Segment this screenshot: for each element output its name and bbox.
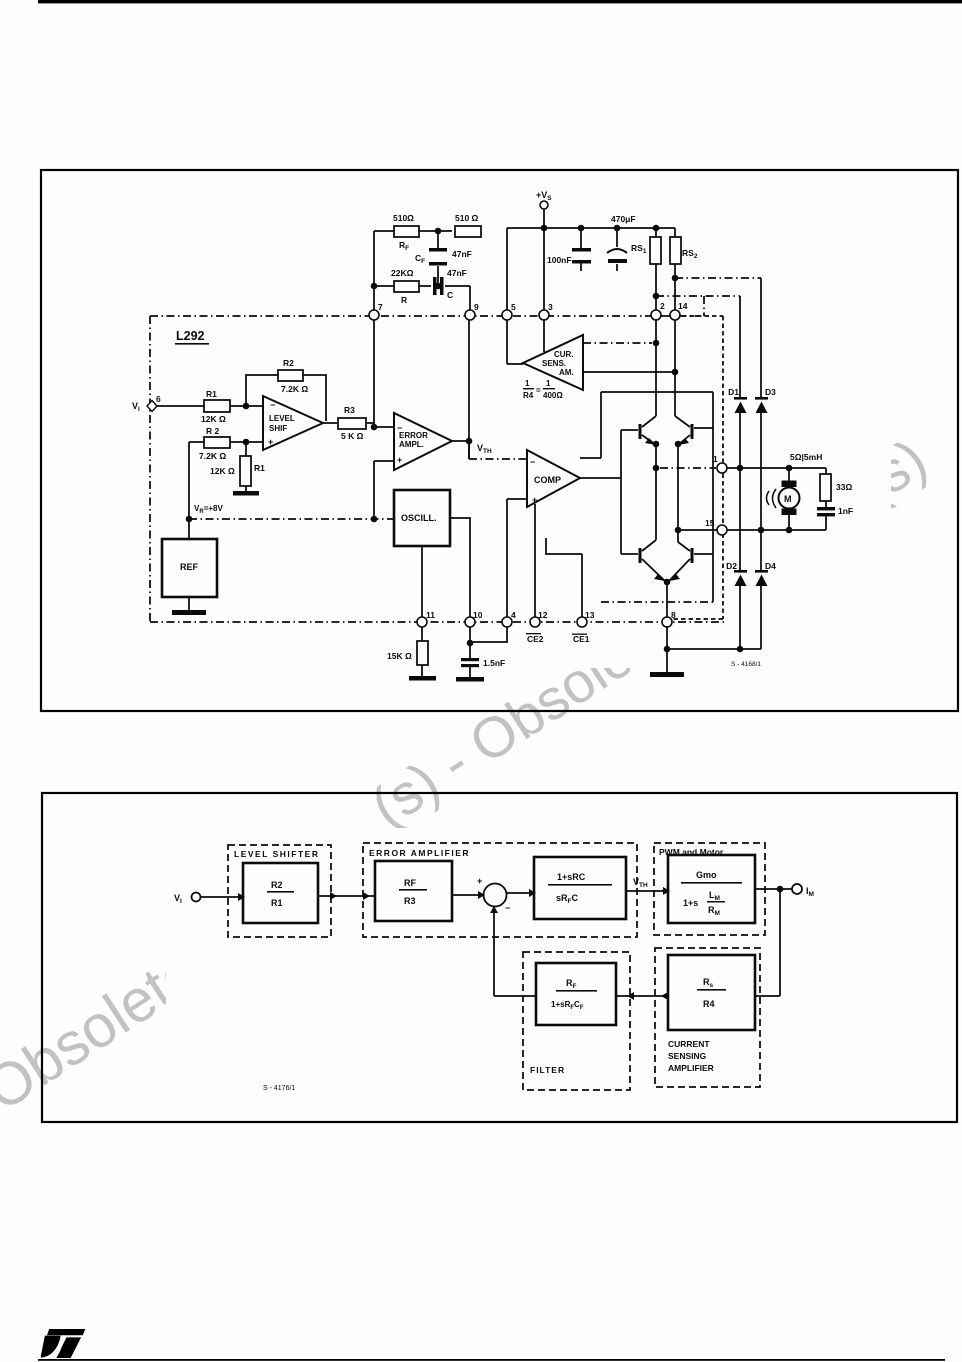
- svg-text:7.2K Ω: 7.2K Ω: [199, 451, 226, 461]
- svg-text:R2: R2: [283, 358, 294, 368]
- svg-text:OSCILL.: OSCILL.: [401, 513, 437, 523]
- svg-text:ERROR: ERROR: [399, 431, 428, 440]
- svg-text:SHIF: SHIF: [269, 424, 287, 433]
- svg-text:1.5nF: 1.5nF: [483, 658, 505, 668]
- svg-text:R2: R2: [271, 880, 283, 890]
- svg-text:15K Ω: 15K Ω: [387, 651, 412, 661]
- svg-text:510Ω: 510Ω: [393, 213, 414, 223]
- svg-text:M: M: [784, 494, 792, 504]
- svg-text:1: 1: [546, 379, 551, 388]
- svg-text:SENS.: SENS.: [542, 359, 566, 368]
- svg-text:S - 4176/1: S - 4176/1: [263, 1085, 295, 1092]
- svg-text:+: +: [477, 876, 482, 886]
- svg-text:D4: D4: [765, 561, 776, 571]
- svg-text:D1: D1: [728, 387, 739, 397]
- svg-text:15: 15: [705, 518, 715, 528]
- svg-text:−: −: [530, 457, 535, 467]
- svg-text:AMPLIFIER: AMPLIFIER: [668, 1063, 714, 1073]
- svg-text:7: 7: [378, 302, 383, 312]
- svg-text:R 2: R 2: [206, 426, 220, 436]
- svg-text:22KΩ: 22KΩ: [391, 268, 414, 278]
- svg-text:Gmo: Gmo: [696, 870, 717, 880]
- svg-text:−: −: [505, 903, 510, 913]
- svg-text:5Ω|5mH: 5Ω|5mH: [790, 452, 822, 462]
- svg-text:RF: RF: [404, 878, 416, 888]
- svg-text:12: 12: [538, 610, 548, 620]
- svg-text:4: 4: [511, 610, 516, 620]
- svg-text:1: 1: [713, 454, 718, 464]
- svg-text:7.2K Ω: 7.2K Ω: [281, 384, 308, 394]
- svg-text:REF: REF: [180, 562, 199, 572]
- svg-text:FILTER: FILTER: [530, 1065, 565, 1075]
- svg-text:ERROR AMPLIFIER: ERROR AMPLIFIER: [369, 848, 470, 858]
- svg-text:AM.: AM.: [559, 368, 574, 377]
- svg-text:L292: L292: [176, 329, 205, 343]
- svg-text:CE1: CE1: [573, 634, 590, 644]
- svg-text:47nF: 47nF: [452, 249, 472, 259]
- svg-text:R4: R4: [523, 391, 534, 400]
- svg-text:10: 10: [473, 610, 483, 620]
- svg-text:400Ω: 400Ω: [543, 391, 563, 400]
- svg-text:11: 11: [426, 610, 435, 620]
- svg-text:470μF: 470μF: [611, 214, 636, 224]
- svg-text:−: −: [270, 400, 275, 410]
- svg-text:R1: R1: [271, 898, 283, 908]
- svg-text:PWM and Motor: PWM and Motor: [659, 847, 724, 857]
- svg-text:CURRENT: CURRENT: [668, 1039, 710, 1049]
- svg-text:COMP: COMP: [534, 475, 561, 485]
- svg-text:R1: R1: [206, 389, 217, 399]
- svg-text:R3: R3: [344, 405, 355, 415]
- svg-text:+: +: [268, 437, 273, 447]
- svg-text:12K Ω: 12K Ω: [201, 414, 226, 424]
- svg-text:LEVEL SHIFTER: LEVEL SHIFTER: [234, 849, 319, 859]
- svg-text:2: 2: [660, 301, 665, 311]
- svg-text:+: +: [397, 455, 402, 465]
- svg-text:1+sRC: 1+sRC: [557, 872, 586, 882]
- svg-text:CUR.: CUR.: [554, 350, 574, 359]
- svg-text:LEVEL: LEVEL: [269, 414, 295, 423]
- svg-text:5 K Ω: 5 K Ω: [341, 431, 364, 441]
- svg-text:R4: R4: [703, 999, 715, 1009]
- svg-text:SENSING: SENSING: [668, 1051, 707, 1061]
- svg-text:=: =: [536, 386, 541, 395]
- svg-text:8: 8: [671, 610, 676, 620]
- svg-text:100nF: 100nF: [547, 255, 572, 265]
- svg-text:AMPL.: AMPL.: [399, 440, 424, 449]
- svg-text:D3: D3: [765, 387, 776, 397]
- svg-text:6: 6: [156, 394, 161, 404]
- svg-text:1+s: 1+s: [683, 898, 698, 908]
- svg-text:R: R: [401, 295, 407, 305]
- svg-text:5: 5: [511, 302, 516, 312]
- svg-text:14: 14: [678, 301, 688, 311]
- svg-text:1: 1: [525, 379, 530, 388]
- svg-text:510 Ω: 510 Ω: [455, 213, 479, 223]
- svg-text:3: 3: [548, 302, 553, 312]
- svg-text:9: 9: [474, 302, 479, 312]
- svg-text:12K Ω: 12K Ω: [210, 466, 235, 476]
- svg-text:13: 13: [585, 610, 595, 620]
- svg-text:47nF: 47nF: [447, 268, 467, 278]
- svg-text:S - 4168/1: S - 4168/1: [731, 661, 761, 668]
- svg-text:33Ω: 33Ω: [836, 482, 852, 492]
- svg-text:C: C: [447, 290, 453, 300]
- svg-text:CE2: CE2: [527, 634, 544, 644]
- svg-text:R1: R1: [254, 463, 265, 473]
- svg-text:−: −: [397, 423, 402, 433]
- svg-text:R3: R3: [404, 896, 416, 906]
- svg-text:+: +: [532, 495, 537, 505]
- svg-text:D2: D2: [726, 561, 737, 571]
- svg-text:1nF: 1nF: [838, 506, 853, 516]
